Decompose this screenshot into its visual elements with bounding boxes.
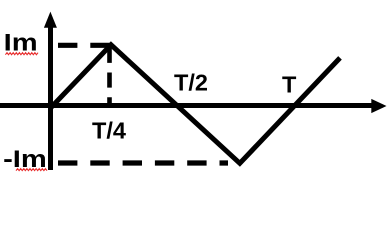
x-axis — [0, 99, 387, 113]
y-axis — [44, 12, 57, 170]
squiggle Im — [5, 53, 38, 55]
wire vertical dashed at T/4 — [107, 48, 112, 105]
wire -Im dashed level — [58, 160, 228, 165]
svg-text:T: T — [282, 72, 297, 98]
node Im — [4, 29, 38, 56]
svg-text:T/4: T/4 — [92, 117, 126, 143]
wire triangular waveform — [51, 45, 340, 164]
squiggle -Im — [16, 169, 47, 171]
wire Im dashed level — [58, 43, 111, 48]
node -Im — [3, 145, 47, 172]
svg-text:Im: Im — [4, 29, 38, 56]
svg-text:-Im: -Im — [3, 145, 47, 172]
svg-text:T/2: T/2 — [174, 70, 208, 96]
